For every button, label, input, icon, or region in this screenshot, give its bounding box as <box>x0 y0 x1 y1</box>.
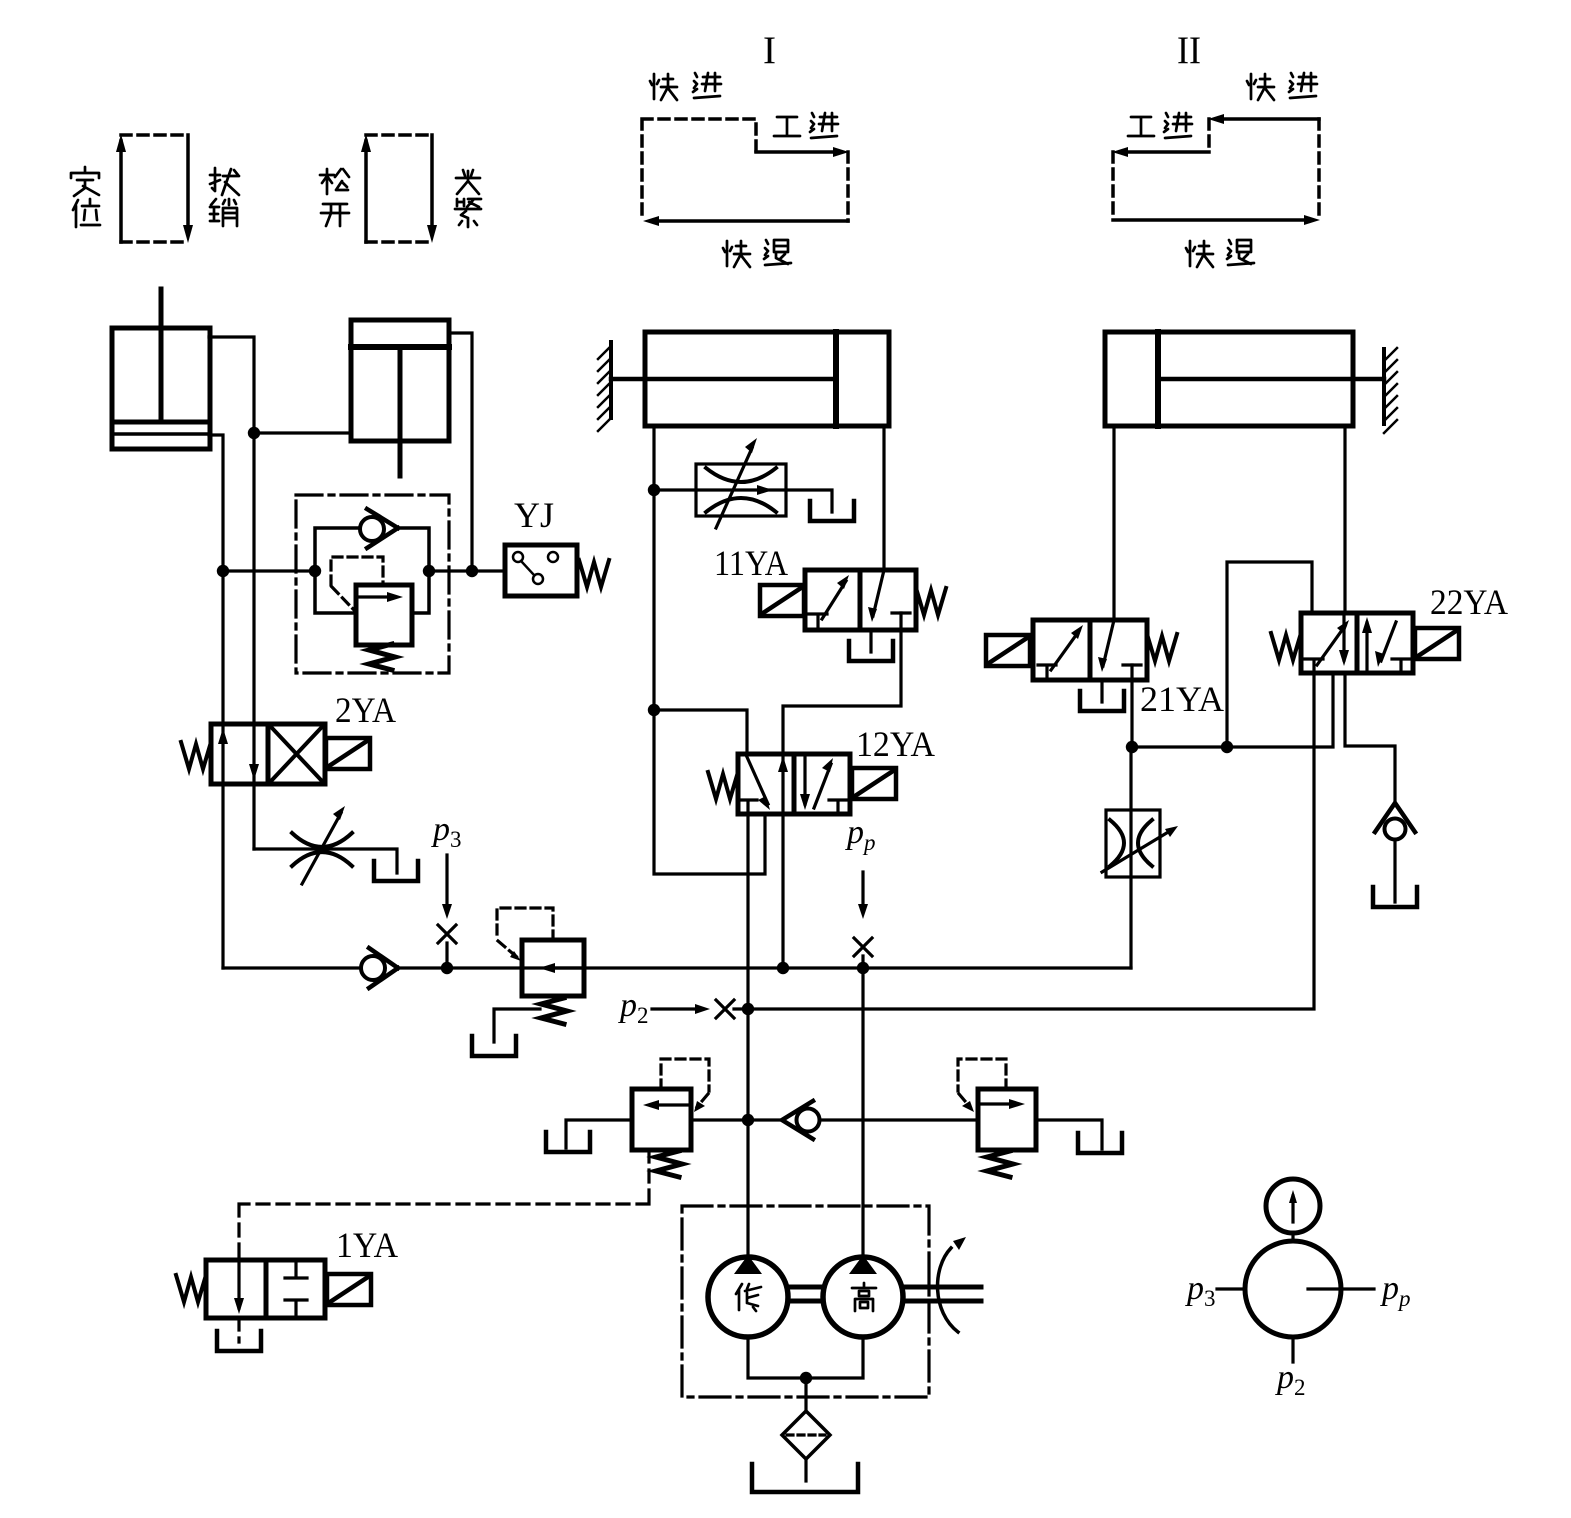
wire: cylinder II right port to 22YA <box>1343 426 1346 613</box>
relief valve B internal arrow (left) <box>657 1103 687 1106</box>
wire: 12YA P port down to pump (x=748) <box>746 814 749 1257</box>
label 拔销 <box>210 168 239 195</box>
cylinder: positioning (vertical, rod up) <box>112 289 210 449</box>
measuring point pp: arrow and X <box>861 872 864 905</box>
pump 低 (low pressure) <box>708 1257 788 1337</box>
valve 1YA left square: down arrow <box>237 1260 240 1308</box>
svg-text:12YA: 12YA <box>856 724 935 764</box>
measuring point p2: arrow and X <box>652 1007 696 1010</box>
node: (806,1378) <box>800 1372 812 1384</box>
node: (1227,747) <box>1221 741 1233 753</box>
spring of 21YA <box>1147 634 1177 661</box>
cycle diagram D2 (clamp cylinder stroke) <box>361 134 437 243</box>
throttle valve T2 (adjustable) <box>292 813 352 884</box>
relief valve A drain to tank <box>494 1009 540 1042</box>
valve 1YA right square: blocked ports <box>285 1260 307 1318</box>
svg-text:21YA: 21YA <box>1140 679 1224 719</box>
wire: throttle T1 line to tank <box>654 490 832 512</box>
spring of 1YA <box>176 1275 206 1302</box>
label 快退 II <box>1186 241 1213 267</box>
drive shaft <box>905 1287 981 1301</box>
pilot drain (dashed): relief B to 1YA to tank <box>239 1150 649 1342</box>
svg-text:YJ: YJ <box>514 495 554 535</box>
spring of 2YA <box>181 742 211 769</box>
tank under 21YA <box>1100 680 1103 702</box>
valve 21YA right square: flow to tank <box>1103 620 1114 666</box>
relief valve B spring <box>656 1151 682 1177</box>
svg-text:I: I <box>763 29 776 72</box>
cylinder II (horizontal, rod right) <box>1105 332 1384 426</box>
reservoir tank <box>752 1464 858 1492</box>
node: (654,490) <box>648 484 660 496</box>
svg-text:1YA: 1YA <box>336 1225 398 1265</box>
relief valve B pilot (dashed) <box>661 1059 709 1107</box>
label 工进 I <box>774 117 800 136</box>
valve 22YA right square: up arrow, diagonal, blocked port <box>1365 623 1368 673</box>
wire: branch to clamp cylinder bottom port <box>254 431 351 434</box>
svg-text:11YA: 11YA <box>714 543 788 583</box>
measuring point p3: arrow and X <box>445 855 448 905</box>
node: junction (254,433) <box>248 427 260 439</box>
wire: 22YA drain port to check valve CV3 <box>1345 673 1395 803</box>
pump coupling shaft <box>790 1287 821 1301</box>
solenoid of 2YA <box>326 738 370 769</box>
wire: y=571 through sequence block <box>223 569 505 572</box>
sequence valve block: dash-dot enclosure <box>296 495 449 673</box>
relief valve A spring <box>541 998 567 1024</box>
node: (472,571) <box>466 565 478 577</box>
relief valve A pilot (dashed) <box>497 908 553 958</box>
sequence valve internal arrow <box>360 595 390 598</box>
node: (748,1120) <box>742 1114 754 1126</box>
valve 22YA left square: blocked port, diagonal, down arrow <box>1305 659 1323 673</box>
wire: filter to reservoir <box>804 1459 807 1481</box>
pump unit dash-dot enclosure <box>682 1206 929 1397</box>
filter <box>782 1411 830 1459</box>
node: (863,968) <box>857 962 869 974</box>
wire: clamp cyl top port down to YJ node <box>449 333 472 571</box>
relief valve B body (low pump) <box>632 1089 691 1150</box>
cylinder: clamp (vertical, rod down) <box>351 320 449 476</box>
wire: positioning cyl top port to 2YA (x=254) <box>209 337 254 849</box>
spring of 11YA <box>916 588 946 615</box>
label 快退 I <box>723 241 750 267</box>
suction lines from pumps <box>748 1337 863 1412</box>
relief valve C pilot (dashed) <box>958 1059 1006 1107</box>
spring of YJ <box>579 560 609 587</box>
tank under 11YA <box>869 630 872 652</box>
check valve CV1 on return line (apex right) <box>361 948 398 988</box>
valve 12YA left square: blocked port, diagonal, up arrow <box>739 800 757 814</box>
relief valve C spring <box>987 1151 1013 1177</box>
node: (315,571) <box>309 565 321 577</box>
valve 2YA body <box>211 724 325 784</box>
spring of 22YA <box>1271 633 1301 660</box>
pump 高 (high pressure) <box>823 1257 903 1337</box>
wire: cylinder I right port to 11YA <box>882 426 885 570</box>
wire: cylinder II left port to 21YA <box>1112 426 1115 620</box>
label 快进 II <box>1247 74 1274 100</box>
sequence valve block: bypass loop rect <box>315 528 429 613</box>
node: (748,1009) <box>742 1003 754 1015</box>
cycle diagram I <box>642 119 849 226</box>
valve 2YA left-position arrows <box>218 728 228 744</box>
solenoid of 22YA <box>1415 628 1459 659</box>
solenoid of 12YA <box>852 768 896 799</box>
sequence valve pilot (dashed) <box>331 557 383 610</box>
valve 21YA left square: blocked port and arrow <box>1038 665 1056 680</box>
wire: branch (653,710) to 12YA top port <box>654 710 747 754</box>
valve 11YA right square: flow to tank <box>873 570 884 616</box>
wire: main return line y=968 <box>223 966 1131 969</box>
wire: pump pressure line y=1120 <box>691 1120 1102 1149</box>
pressure relay YJ <box>505 545 577 596</box>
valve 22YA body <box>1301 613 1413 673</box>
valve 21YA body <box>1033 620 1147 680</box>
check valve CV3 (vertical, apex up) <box>1375 803 1415 840</box>
node: (783,968) <box>777 962 789 974</box>
relief valve B drain to tank <box>566 1120 632 1148</box>
spring of 12YA <box>708 772 738 799</box>
label 松开 <box>320 169 349 194</box>
wire: p2 line y=1009 <box>734 673 1314 1009</box>
wire: positioning cyl bottom port to 2YA (x=223) <box>209 435 223 968</box>
wire: loop from node up to 22YA left top port <box>1227 562 1312 747</box>
tank under T1 <box>810 501 854 521</box>
svg-text:2YA: 2YA <box>335 690 396 730</box>
cycle diagram II <box>1112 114 1320 225</box>
label 定位 <box>71 167 99 196</box>
valve 11YA body <box>805 570 916 630</box>
wall hatching (cylinder II mount) <box>1384 348 1397 433</box>
wire: 11YA out port to 12YA through-line <box>783 613 901 968</box>
valve 12YA body <box>738 754 850 814</box>
node: (447,968) <box>441 962 453 974</box>
node: (1132,747) <box>1126 741 1138 753</box>
relief valve C body (high pump) <box>978 1089 1036 1150</box>
tank under CV3 <box>1373 887 1417 907</box>
check valve CV2 on pump line (apex left) <box>782 1101 820 1139</box>
throttle valve T1 (adjustable, with frame) <box>696 448 786 528</box>
wire: 2YA bottom (x=254) to throttle T2 and tank <box>254 849 397 873</box>
label 夹紧 <box>456 170 480 194</box>
valve 2YA right-position crossed (blocked) <box>272 728 321 780</box>
solenoid of 21YA <box>986 635 1030 666</box>
check valve (sequence block, apex right) <box>360 509 398 548</box>
node: (223,571) <box>217 565 229 577</box>
solenoid of 1YA <box>327 1274 371 1305</box>
solenoid of 11YA <box>760 585 804 616</box>
valve 12YA right square: down arrow, diagonal, blocked port <box>803 754 806 804</box>
gauge selector ports <box>1217 1289 1374 1362</box>
tank under 1YA <box>217 1331 261 1351</box>
valve 11YA left square: blocked port and arrow <box>809 614 827 630</box>
tank under T2 <box>374 861 418 881</box>
tank right of relief valve C <box>1078 1133 1122 1153</box>
wire: cylinder I left port down to pump line (x=654) with 12YA loop <box>654 426 765 874</box>
wire: CV3 to tank <box>1393 840 1396 902</box>
cylinder I (horizontal, rod left) <box>611 332 889 426</box>
wire: pp line from X down to pump <box>861 956 864 1257</box>
valve 1YA body <box>206 1260 325 1318</box>
node: (429,571) <box>423 565 435 577</box>
label 快进 I <box>650 74 677 100</box>
wire: 21YA out port down and across y=747 <box>1132 665 1333 747</box>
rotation arrow on drive shaft <box>938 1248 958 1332</box>
relief valve A (p2 pilot valve) body <box>522 940 584 996</box>
svg-text:II: II <box>1177 29 1201 72</box>
cycle diagram D1 (positioning cylinder stroke) <box>116 134 193 243</box>
node: (654,710) <box>648 704 660 716</box>
throttle valve T3 (adjustable, with frame) on x=1131 <box>1129 747 1132 968</box>
sequence valve spring <box>369 644 395 670</box>
sequence valve body <box>356 585 412 645</box>
relief valve C internal arrow (right) <box>982 1102 1011 1105</box>
svg-text:22YA: 22YA <box>1430 582 1508 622</box>
label 工进 II <box>1128 117 1154 136</box>
pressure gauge <box>1266 1179 1320 1233</box>
relief valve A internal arrow (left) <box>553 966 584 969</box>
gauge selector circle <box>1245 1241 1341 1337</box>
wall hatching (cylinder I mount) <box>598 346 611 431</box>
